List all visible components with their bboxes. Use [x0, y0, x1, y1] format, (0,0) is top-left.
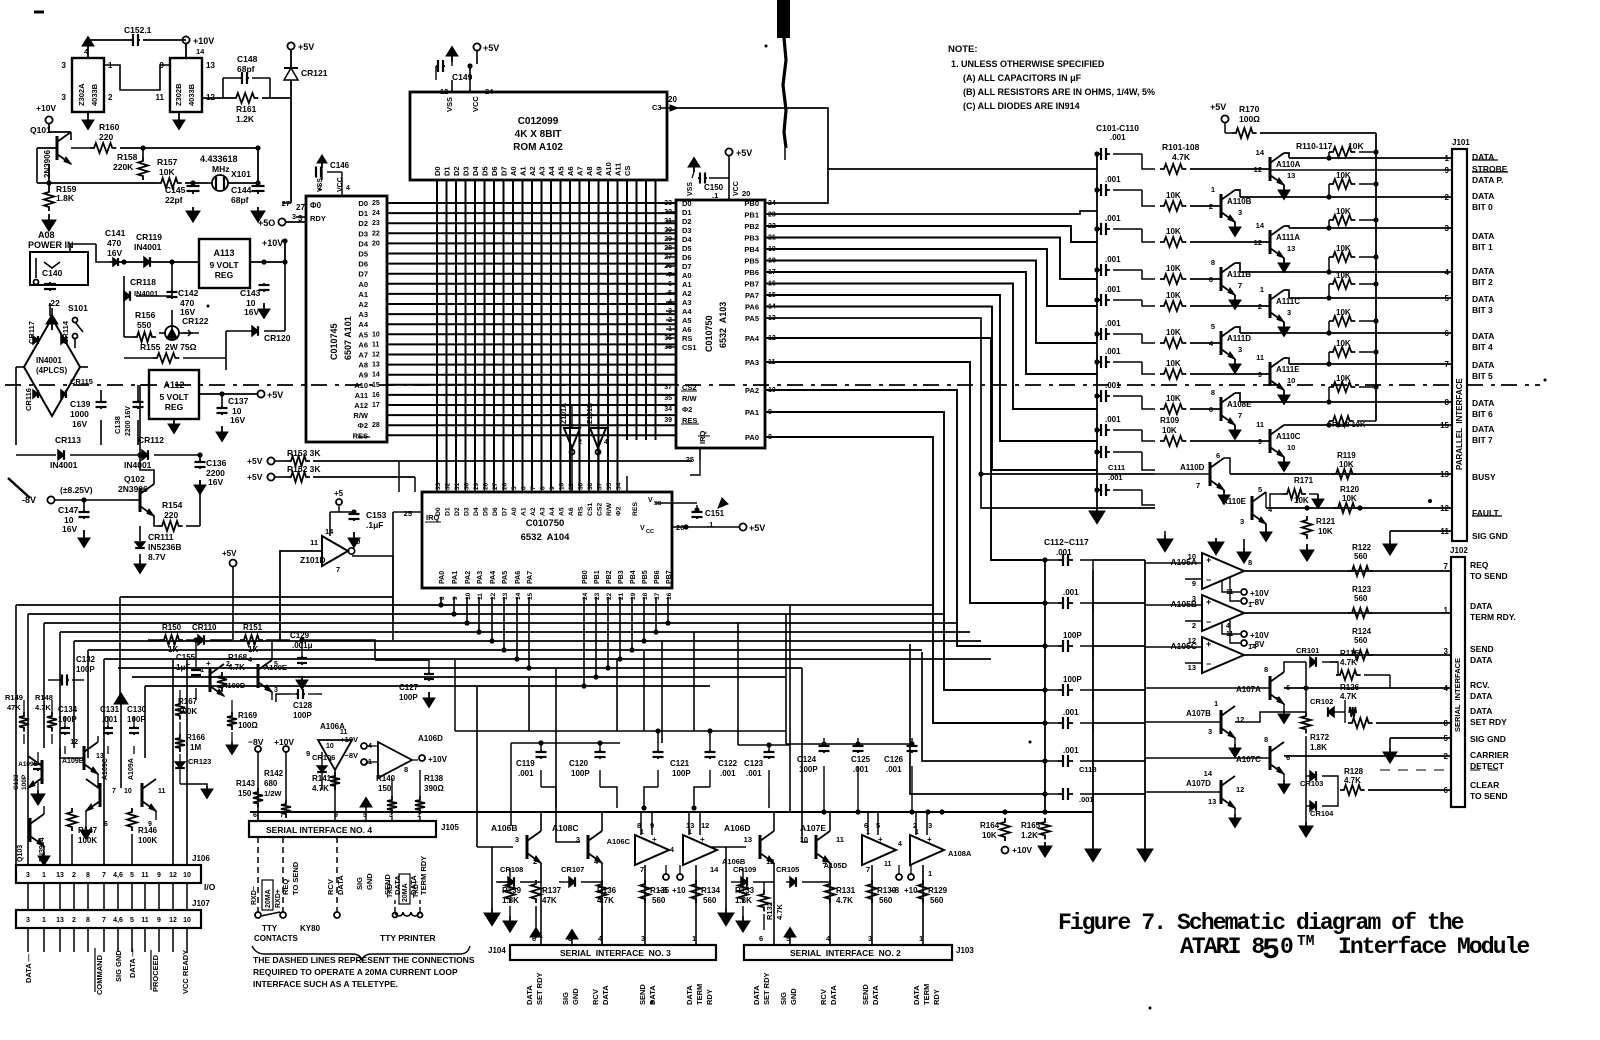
- opamp power taps A105A: [1222, 580, 1240, 592]
- transistor Q101 2N3906: [57, 132, 71, 164]
- svg-text:10: 10: [1188, 552, 1196, 561]
- svg-text:4.433618: 4.433618: [200, 154, 238, 164]
- wire osc loop right: [257, 148, 259, 183]
- wire A103 irq down: [690, 460, 700, 475]
- wire +5V rail vertical: [1375, 133, 1377, 421]
- svg-text:24: 24: [485, 87, 494, 96]
- svg-text:A110D: A110D: [1180, 463, 1205, 472]
- svg-text:5: 5: [1262, 934, 1280, 968]
- svg-text:D4: D4: [358, 239, 368, 248]
- svg-text:220: 220: [99, 132, 113, 142]
- svg-text:PB7: PB7: [666, 570, 673, 584]
- svg-text:.001: .001: [1063, 708, 1079, 717]
- svg-text:14: 14: [196, 47, 205, 56]
- svg-text:6: 6: [521, 486, 528, 490]
- svg-text:PA7: PA7: [745, 291, 759, 300]
- svg-text:A0: A0: [509, 166, 518, 176]
- svg-text:C010750: C010750: [526, 518, 565, 529]
- svg-text:.001: .001: [720, 769, 736, 778]
- svg-text:2: 2: [1444, 752, 1449, 761]
- svg-text:5: 5: [130, 917, 134, 924]
- transistor Q103 2N3904: [30, 814, 44, 846]
- svg-text:.1μF: .1μF: [366, 520, 383, 530]
- transistor A107B: [1221, 706, 1235, 738]
- svg-text:8: 8: [1445, 398, 1450, 407]
- svg-text:R122: R122: [1352, 543, 1372, 552]
- svg-text:37: 37: [664, 384, 672, 391]
- svg-text:R109: R109: [1160, 416, 1180, 425]
- svg-text:TXD+: TXD+: [413, 880, 420, 898]
- svg-text:NOTE:: NOTE:: [948, 44, 978, 55]
- svg-text:−: −: [1206, 575, 1211, 585]
- svg-text:R/W: R/W: [606, 502, 613, 516]
- svg-text:10K: 10K: [1339, 460, 1354, 469]
- svg-text:CONTACTS: CONTACTS: [254, 934, 299, 943]
- svg-text:150: 150: [378, 784, 392, 793]
- svg-text:9: 9: [306, 749, 310, 758]
- buffer A106B tri: [683, 835, 717, 865]
- svg-text:A111E: A111E: [1276, 365, 1300, 374]
- svg-text:12: 12: [1236, 785, 1244, 794]
- svg-text:2: 2: [72, 872, 76, 879]
- svg-text:C144: C144: [231, 185, 252, 195]
- svg-text:35: 35: [606, 482, 613, 490]
- svg-text:A2: A2: [530, 507, 537, 516]
- svg-text:R124: R124: [1352, 627, 1372, 636]
- wires J106-J107: [27, 883, 29, 910]
- svg-text:RCV.: RCV.: [1470, 680, 1490, 690]
- svg-text:8: 8: [1211, 388, 1215, 397]
- IC Z303 block: [170, 58, 202, 112]
- ground sig gnd J102: [1389, 738, 1391, 748]
- svg-text:SERIAL INTERFACE NO. 3: SERIAL INTERFACE NO. 3: [560, 948, 671, 958]
- svg-text:14: 14: [1256, 148, 1265, 157]
- svg-text:25: 25: [686, 455, 694, 464]
- svg-text:17: 17: [654, 592, 661, 600]
- svg-text:C139: C139: [70, 399, 91, 409]
- svg-text:7: 7: [866, 865, 870, 874]
- transistor A109D: [210, 664, 224, 696]
- resistor R160 220: [71, 147, 90, 149]
- svg-text:+: +: [700, 835, 705, 844]
- svg-text:TXD−: TXD−: [387, 880, 394, 898]
- svg-text:A1: A1: [682, 280, 692, 289]
- svg-text:PB0: PB0: [582, 570, 589, 584]
- svg-text:PA5: PA5: [502, 571, 509, 584]
- svg-text:4033B: 4033B: [187, 83, 196, 106]
- resistor R118 10K: [1328, 421, 1330, 425]
- svg-text:47K: 47K: [7, 703, 21, 712]
- svg-text:10K: 10K: [1336, 339, 1351, 348]
- svg-text:SERIAL INTERFACE NO. 2: SERIAL INTERFACE NO. 2: [790, 948, 901, 958]
- svg-text:150: 150: [238, 789, 252, 798]
- svg-text:13: 13: [502, 592, 509, 600]
- J103 pin stubs: [762, 938, 764, 945]
- svg-text:+10V: +10V: [428, 755, 448, 764]
- svg-text:PB1: PB1: [744, 211, 759, 220]
- svg-text:C112~C117: C112~C117: [1044, 537, 1089, 547]
- svg-text:+: +: [1206, 639, 1211, 649]
- wire Z101D in: [280, 551, 322, 640]
- svg-text:R140: R140: [376, 774, 396, 783]
- transistor A107C: [1270, 742, 1284, 774]
- svg-text:2: 2: [1445, 193, 1450, 202]
- svg-text:3: 3: [928, 821, 932, 830]
- svg-text:560: 560: [652, 896, 666, 905]
- svg-text:REG: REG: [215, 270, 234, 280]
- svg-text:R126: R126: [1340, 683, 1360, 692]
- svg-text:Φ2: Φ2: [358, 421, 368, 430]
- svg-text:A8: A8: [358, 361, 368, 370]
- wire serial row7 feed: [910, 644, 1045, 794]
- svg-text:CR107: CR107: [561, 865, 584, 874]
- svg-text:TERM: TERM: [695, 984, 704, 1005]
- svg-text:1: 1: [1214, 699, 1218, 708]
- ground arrows mid: [1208, 538, 1224, 555]
- svg-text:6: 6: [1209, 275, 1213, 284]
- svg-text:39: 39: [664, 417, 672, 424]
- svg-text:D6: D6: [358, 260, 368, 269]
- opamp A106D tri SI4: [378, 742, 412, 778]
- svg-text:25: 25: [404, 509, 412, 518]
- svg-text:5: 5: [274, 661, 278, 668]
- svg-text:TTY: TTY: [262, 924, 278, 933]
- svg-text:26: 26: [502, 482, 509, 490]
- svg-text:5: 5: [1445, 294, 1450, 303]
- svg-text:Z302B: Z302B: [174, 83, 183, 106]
- svg-text:DATA —: DATA —: [24, 953, 33, 983]
- svg-text:11: 11: [836, 835, 844, 844]
- svg-text:10K: 10K: [982, 831, 997, 840]
- connector J105 strip SERIAL INTERFACE NO 4: [249, 821, 436, 837]
- capacitor C148 68pf: [222, 78, 224, 98]
- buffer A108A tri: [910, 835, 944, 865]
- svg-text:31: 31: [454, 482, 461, 490]
- svg-text:VCC: VCC: [337, 177, 344, 192]
- svg-text:7: 7: [1276, 695, 1280, 704]
- wire A104 top pin stubs: [436, 476, 438, 492]
- connector J101 parallel interface: [1452, 149, 1467, 541]
- svg-text:16V: 16V: [72, 419, 87, 429]
- svg-text:4.7K: 4.7K: [1340, 692, 1357, 701]
- svg-text:C146: C146: [330, 161, 350, 170]
- svg-text:13: 13: [1440, 470, 1449, 479]
- svg-text:4: 4: [1226, 623, 1230, 630]
- svg-text:12: 12: [1254, 165, 1262, 174]
- svg-text:PB4: PB4: [744, 245, 759, 254]
- svg-text:6: 6: [1286, 753, 1290, 762]
- transistor A110A row: [1160, 164, 1186, 174]
- svg-text:10: 10: [372, 331, 380, 338]
- svg-text:DATA: DATA: [871, 985, 880, 1005]
- svg-text:DATA —: DATA —: [128, 948, 137, 978]
- svg-text:D1: D1: [682, 208, 692, 217]
- svg-text:100P: 100P: [1063, 631, 1082, 640]
- svg-text:10K: 10K: [1166, 394, 1181, 403]
- svg-text:A109A: A109A: [128, 758, 135, 780]
- IC CPU C010745 6507 A101: [306, 196, 387, 442]
- svg-text:PB4: PB4: [630, 570, 637, 584]
- ground arrow SI2 left: [725, 847, 727, 908]
- svg-text:C155: C155: [176, 653, 196, 662]
- svg-text:2: 2: [72, 917, 76, 924]
- svg-text:C118: C118: [1079, 765, 1097, 774]
- svg-text:D2: D2: [454, 507, 461, 516]
- svg-text:−8V: −8V: [1250, 598, 1265, 607]
- svg-text:A106B: A106B: [491, 823, 517, 833]
- svg-text:INTERFACE SUCH AS A TELETYPE.: INTERFACE SUCH AS A TELETYPE.: [253, 979, 398, 989]
- svg-text:A109B: A109B: [62, 758, 84, 765]
- svg-text:CR104: CR104: [1310, 809, 1334, 818]
- svg-text:C148: C148: [237, 54, 258, 64]
- svg-text:BUSY: BUSY: [1472, 472, 1496, 482]
- svg-text:8.7V: 8.7V: [148, 552, 166, 562]
- svg-text:PB2: PB2: [606, 570, 613, 584]
- svg-text:CR116: CR116: [24, 388, 33, 411]
- svg-text:10: 10: [559, 482, 566, 490]
- transistor A110D: [1210, 458, 1224, 490]
- svg-text:(B) ALL RESISTORS ARE IN OHMS,: (B) ALL RESISTORS ARE IN OHMS, 1/4W, 5%: [963, 87, 1155, 97]
- wire C127 feed: [375, 659, 429, 661]
- svg-text:D7: D7: [500, 166, 509, 176]
- svg-text:A1: A1: [519, 166, 528, 176]
- svg-text:R157: R157: [157, 157, 178, 167]
- wire A104 PB stubs down: [583, 597, 585, 686]
- svg-text:9 VOLT: 9 VOLT: [209, 260, 239, 270]
- svg-text:A8: A8: [585, 166, 594, 176]
- svg-text:R131: R131: [836, 886, 856, 895]
- svg-text:CS1: CS1: [587, 503, 594, 516]
- ground below R159: [42, 214, 56, 231]
- svg-text:+10: +10: [904, 886, 918, 895]
- svg-text:SET RDY: SET RDY: [535, 972, 544, 1005]
- svg-text:R110-117: R110-117: [1296, 141, 1333, 151]
- svg-text:13: 13: [1287, 244, 1295, 253]
- ground arrow pin11 sig gnd: [1389, 531, 1391, 540]
- svg-text:+5V: +5V: [247, 472, 263, 482]
- svg-text:C120: C120: [569, 759, 589, 768]
- node q101 base rail: [36, 148, 38, 183]
- svg-text:10: 10: [183, 917, 191, 924]
- wire rail y812 long: [250, 811, 1093, 813]
- svg-text:A110C: A110C: [1276, 432, 1301, 441]
- svg-text:DATA: DATA: [1472, 331, 1494, 341]
- svg-text:A11: A11: [614, 163, 623, 176]
- terminal +5V CR121: [287, 42, 294, 49]
- svg-text:D6: D6: [492, 507, 499, 516]
- svg-text:R138: R138: [424, 774, 444, 783]
- svg-text:SEND: SEND: [861, 984, 870, 1005]
- transistor A110B row: [1160, 201, 1186, 211]
- svg-text:S101: S101: [68, 303, 88, 313]
- svg-text:10K: 10K: [1336, 374, 1351, 383]
- svg-text:DATA: DATA: [393, 875, 402, 895]
- wire opamp input bus: [1144, 560, 1146, 845]
- svg-text:47K: 47K: [542, 896, 557, 905]
- label minus SI4: [432, 811, 440, 813]
- svg-text:PA1: PA1: [745, 408, 759, 417]
- svg-text:REG: REG: [165, 402, 184, 412]
- svg-text:+: +: [206, 659, 211, 668]
- svg-text:A12: A12: [354, 401, 368, 410]
- svg-text:BIT 7: BIT 7: [1472, 435, 1493, 445]
- svg-text:THE DASHED LINES REPRESENT THE: THE DASHED LINES REPRESENT THE CONNECTIO…: [253, 955, 475, 965]
- svg-text:C3: C3: [652, 103, 662, 112]
- svg-text:R155 2W 75Ω: R155 2W 75Ω: [140, 342, 197, 352]
- svg-text:J102: J102: [1450, 546, 1468, 555]
- svg-text:DATA: DATA: [1470, 706, 1492, 716]
- svg-text:.1: .1: [712, 191, 718, 200]
- svg-text:8: 8: [86, 917, 90, 924]
- ground below Z302B: [173, 112, 185, 130]
- svg-text:9: 9: [452, 596, 459, 600]
- svg-text:−8V: −8V: [344, 751, 358, 760]
- svg-text:C126: C126: [884, 755, 904, 764]
- svg-text:6: 6: [1216, 451, 1220, 460]
- svg-text:PA5: PA5: [745, 314, 759, 323]
- transistor A111D row: [1160, 338, 1186, 348]
- svg-text:−8V: −8V: [1250, 640, 1265, 649]
- svg-text:RES: RES: [353, 431, 368, 440]
- transistor A111C row: [1160, 301, 1186, 311]
- terminal +10V Q101: [45, 116, 52, 123]
- svg-text:16V: 16V: [62, 524, 77, 534]
- svg-text:36: 36: [578, 482, 585, 490]
- svg-text:35: 35: [664, 395, 672, 402]
- wire rail y731: [455, 730, 786, 732]
- svg-text:R/W: R/W: [682, 394, 698, 403]
- crystal X101: [212, 175, 228, 191]
- wire CR108 link: [496, 881, 510, 883]
- svg-text:18: 18: [642, 592, 649, 600]
- svg-text:9: 9: [157, 917, 161, 924]
- resistor R159 1.8K: [44, 188, 54, 211]
- svg-text:C127: C127: [399, 683, 419, 692]
- svg-text:CR106: CR106: [312, 753, 335, 762]
- svg-text:4.7K: 4.7K: [1340, 658, 1357, 667]
- svg-text:Φ2: Φ2: [616, 506, 623, 516]
- svg-text:A113: A113: [213, 248, 234, 258]
- capacitor C136 2200 16V: [197, 452, 202, 457]
- svg-text:SIG: SIG: [355, 877, 364, 890]
- svg-text:SERIAL INTERFACE NO. 4: SERIAL INTERFACE NO. 4: [266, 825, 372, 835]
- wire DATA P second line: [1270, 169, 1452, 171]
- svg-text:TTY PRINTER: TTY PRINTER: [380, 933, 436, 943]
- svg-text:A9: A9: [358, 371, 368, 380]
- svg-text:A4: A4: [547, 166, 556, 176]
- svg-text:16: 16: [666, 592, 673, 600]
- svg-text:C147: C147: [58, 505, 79, 515]
- svg-text:A6: A6: [568, 507, 575, 516]
- svg-text:4.7K: 4.7K: [1172, 152, 1191, 162]
- svg-text:A108A: A108A: [948, 849, 972, 858]
- svg-text:10: 10: [124, 788, 132, 795]
- svg-text:13: 13: [744, 835, 752, 844]
- svg-text:C152.1: C152.1: [124, 25, 152, 35]
- svg-text:20MA: 20MA: [402, 883, 409, 902]
- svg-text:CR102: CR102: [1310, 697, 1333, 706]
- svg-text:TERM RDY: TERM RDY: [419, 856, 428, 895]
- wire A107E base feed: [802, 668, 808, 842]
- svg-text:D5: D5: [483, 507, 490, 516]
- svg-text:DATA: DATA: [1470, 601, 1492, 611]
- svg-text:10K: 10K: [1162, 426, 1177, 435]
- svg-text:CR119: CR119: [136, 232, 162, 242]
- A104 VSS arrow: [655, 502, 697, 504]
- wire ROM20 loop: [678, 108, 828, 169]
- svg-text:1.2K: 1.2K: [1021, 831, 1038, 840]
- wire staircase to serial caps: [476, 686, 478, 710]
- transistor A109E2: [258, 660, 272, 692]
- svg-text:A4: A4: [358, 320, 368, 329]
- svg-text:PA6: PA6: [515, 571, 522, 584]
- svg-text:PA3: PA3: [745, 358, 759, 367]
- dashed wire RXD-: [257, 837, 259, 912]
- svg-text:A10: A10: [354, 381, 368, 390]
- svg-text:6507 A101: 6507 A101: [343, 316, 353, 360]
- svg-text:9: 9: [1192, 579, 1196, 588]
- svg-text:8: 8: [1264, 735, 1268, 744]
- wire osc output down: [290, 98, 292, 203]
- svg-text:8: 8: [1444, 719, 1449, 728]
- svg-text:DATA: DATA: [829, 985, 838, 1005]
- capacitor C152.1: [88, 39, 131, 41]
- svg-text:DATA: DATA: [1472, 294, 1494, 304]
- svg-text:3: 3: [1208, 727, 1212, 736]
- svg-text:2: 2: [226, 661, 230, 668]
- svg-text:C136: C136: [206, 458, 227, 468]
- svg-text:21: 21: [618, 592, 625, 600]
- svg-text:+10: +10: [672, 886, 686, 895]
- svg-text:PA6: PA6: [745, 303, 759, 312]
- svg-text:13: 13: [1188, 663, 1196, 672]
- terminal +5V A103: [725, 148, 732, 155]
- svg-text:A08: A08: [38, 230, 55, 240]
- svg-text:5: 5: [1258, 485, 1262, 494]
- svg-text:7: 7: [1444, 562, 1449, 571]
- svg-text:10: 10: [465, 592, 472, 600]
- connector J107: [16, 910, 201, 928]
- svg-text:DETECT: DETECT: [1470, 761, 1505, 771]
- svg-text:100P: 100P: [399, 693, 418, 702]
- svg-text:4K X 8BIT: 4K X 8BIT: [515, 129, 562, 140]
- svg-text:R121: R121: [1316, 517, 1336, 526]
- svg-text:J103: J103: [956, 946, 974, 955]
- svg-text:20: 20: [668, 95, 677, 104]
- svg-text:6: 6: [1209, 405, 1213, 414]
- svg-text:100K: 100K: [138, 836, 157, 845]
- ground below serial caps: [1085, 845, 1101, 862]
- A103 left pin stubs: [666, 202, 676, 204]
- wire Q102 collector: [140, 455, 154, 484]
- svg-text:4: 4: [898, 841, 902, 848]
- svg-text:+5V: +5V: [222, 549, 237, 558]
- svg-text:16V: 16V: [230, 415, 245, 425]
- svg-text:3: 3: [1445, 224, 1450, 233]
- svg-text:R158: R158: [117, 152, 138, 162]
- wire Q101 collector: [70, 132, 72, 140]
- svg-text:.001: .001: [1110, 133, 1126, 142]
- svg-text:R164: R164: [980, 821, 1000, 830]
- svg-text:CR113: CR113: [55, 435, 81, 445]
- svg-text:J104: J104: [488, 946, 506, 955]
- svg-text:.001: .001: [746, 769, 762, 778]
- svg-text:SERIAL INTERFACE: SERIAL INTERFACE: [1453, 658, 1462, 732]
- svg-text:C137: C137: [228, 396, 249, 406]
- svg-text:D2: D2: [682, 217, 692, 226]
- svg-text:D6: D6: [490, 166, 499, 176]
- svg-text:100P: 100P: [293, 711, 312, 720]
